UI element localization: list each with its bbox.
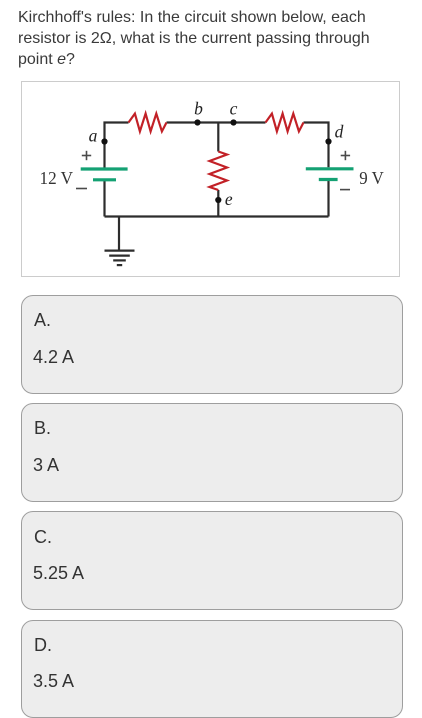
circuit panel frame bbox=[21, 81, 400, 277]
minus sign right battery bbox=[340, 189, 350, 191]
battery 12V short plate bbox=[93, 178, 116, 181]
battery 12V long plate bbox=[81, 167, 128, 170]
svg-text:b: b bbox=[194, 99, 203, 119]
resistor R3 (middle vertical) bbox=[210, 152, 228, 191]
question text bbox=[18, 7, 370, 70]
node c bbox=[230, 119, 236, 125]
plus sign left battery bbox=[82, 151, 91, 160]
answer card C bbox=[21, 511, 403, 610]
node b bbox=[194, 119, 200, 125]
wire: middle vertical from top rail to R3 bbox=[217, 123, 219, 152]
svg-text:d: d bbox=[335, 122, 344, 142]
wire: top rail right part (R2 to corner d) bbox=[304, 123, 329, 142]
wire: right vertical from node d to battery top plate bbox=[327, 141, 329, 167]
svg-text:e: e bbox=[225, 189, 233, 209]
wire: bottom rail bbox=[105, 215, 329, 217]
svg-text:c: c bbox=[230, 99, 238, 119]
wire: right vertical from battery bottom plate to bottom rail bbox=[327, 181, 329, 217]
wire: left vertical from node a to battery top plate bbox=[103, 141, 105, 168]
resistor R2 (top right) bbox=[266, 114, 304, 132]
wire: ground stub bbox=[118, 217, 120, 251]
svg-text:12 V: 12 V bbox=[40, 168, 74, 188]
answer card D bbox=[21, 620, 403, 718]
answer card B bbox=[21, 403, 403, 502]
node e bbox=[215, 197, 221, 203]
minus sign left battery bbox=[76, 188, 87, 190]
svg-text:9 V: 9 V bbox=[359, 168, 384, 188]
wire: top rail left part (corner a to R1) bbox=[105, 123, 129, 142]
answer card A bbox=[21, 295, 403, 394]
battery 9V short plate bbox=[319, 178, 338, 181]
ground bbox=[105, 251, 135, 266]
battery 9V long plate bbox=[306, 167, 354, 170]
wire: top rail between R1 and R2 bbox=[167, 121, 266, 123]
resistor R1 (top left) bbox=[129, 114, 167, 132]
wires group bbox=[105, 123, 329, 251]
node d bbox=[325, 138, 331, 144]
wire: left vertical from battery bottom plate to bottom rail bbox=[103, 181, 105, 217]
plus sign right battery bbox=[341, 151, 350, 160]
svg-text:a: a bbox=[89, 126, 98, 146]
node a bbox=[101, 138, 107, 144]
wire: middle vertical from R3 through node e to bottom rail bbox=[217, 190, 219, 217]
